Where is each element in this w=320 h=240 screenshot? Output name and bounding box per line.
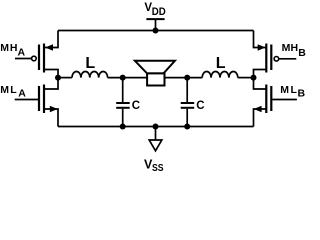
- svg-text:B: B: [298, 47, 306, 59]
- svg-text:B: B: [298, 88, 306, 100]
- node A junction (drains of MH_A/ML_A): [55, 75, 61, 81]
- speaker LS1: [135, 61, 175, 86]
- junction node B to capacitor C (right): [184, 75, 190, 81]
- label MH_A: [0, 42, 25, 59]
- label ML_B: [280, 84, 305, 100]
- wire speaker to inductor (node B): [165, 77, 203, 79]
- junction capacitor C (right) to bottom rail: [184, 124, 190, 130]
- svg-text:ML: ML: [280, 84, 298, 96]
- wire node A to inductor: [58, 77, 72, 79]
- label VSS: [144, 157, 164, 174]
- svg-text:C: C: [132, 100, 140, 112]
- svg-text:A: A: [18, 47, 26, 59]
- inductor L (left): [72, 72, 108, 78]
- node B junction (drains of MH_B/ML_B): [251, 75, 257, 81]
- capacitor C (right): [181, 78, 195, 127]
- wire top rail VDD: [58, 30, 254, 32]
- label MH_B: [282, 42, 307, 59]
- wire inductor to node B: [238, 77, 254, 79]
- transistor ML_B (NMOS): [254, 78, 297, 127]
- svg-text:L: L: [216, 55, 226, 72]
- junction capacitor C (left) to bottom rail: [120, 124, 126, 130]
- wire inductor to speaker (node A): [108, 77, 148, 79]
- capacitor C (left): [116, 78, 130, 127]
- svg-text:ML: ML: [0, 84, 18, 96]
- junction VDD to top rail: [153, 28, 159, 34]
- svg-text:MH: MH: [282, 42, 299, 54]
- svg-text:A: A: [18, 88, 26, 100]
- svg-text:SS: SS: [152, 162, 164, 174]
- junction node A to capacitor C (left): [120, 75, 126, 81]
- svg-text:C: C: [196, 100, 204, 112]
- transistor ML_A (NMOS): [15, 78, 58, 127]
- wire bottom rail VSS: [58, 126, 254, 128]
- junction VSS to bottom rail: [153, 124, 159, 130]
- supply VDD: [146, 19, 164, 30]
- label ML_A: [0, 84, 26, 100]
- svg-text:DD: DD: [152, 6, 166, 18]
- inductor L (right): [202, 72, 238, 78]
- transistor MH_B (PMOS): [254, 31, 297, 78]
- svg-text:L: L: [85, 55, 95, 72]
- label VDD: [144, 2, 165, 18]
- transistor MH_A (PMOS): [15, 31, 58, 78]
- ground VSS: [149, 127, 162, 151]
- svg-text:MH: MH: [0, 42, 18, 54]
